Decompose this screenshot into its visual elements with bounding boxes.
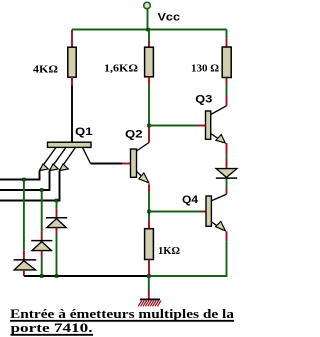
wire: Q4 emitter stub — [226, 231, 228, 241]
wire: Q3 emitter to D4 — [226, 143, 228, 169]
svg-text:Q2: Q2 — [125, 129, 143, 141]
wire: R1 bottom to Q1 base — [71, 77, 73, 143]
diode D2 (input clamp) — [31, 241, 52, 251]
resistor R1 4KΩ — [68, 47, 76, 77]
wire: input line 1 — [0, 171, 40, 180]
svg-text:1,6KΩ: 1,6KΩ — [104, 64, 138, 75]
wire: R2 bottom to node B — [148, 77, 150, 126]
wire: Q3 base — [149, 125, 206, 127]
wire: R1 top stub — [71, 30, 73, 48]
transistor Q4 — [206, 194, 227, 230]
resistor R2 1,6KΩ — [145, 47, 154, 77]
transistor Q3 — [206, 106, 227, 142]
wire: bottom ground rail (left, black) — [24, 275, 149, 277]
Q4 emitter arrow — [216, 221, 226, 231]
resistor R3 1KΩ — [145, 229, 154, 260]
wire: D1 to ground rail — [23, 270, 25, 276]
wire: top supply rail — [72, 29, 227, 31]
node: rail dot b2 — [40, 274, 44, 278]
wire: Q2 emitter down to 1K — [148, 184, 150, 228]
wire: D4 to Q4 collector — [226, 179, 228, 195]
wire: input line 2 — [0, 171, 50, 191]
svg-text:Q3: Q3 — [195, 94, 212, 106]
svg-text:Vcc: Vcc — [158, 12, 181, 24]
wire: branch to Q4 base — [149, 211, 206, 213]
svg-text:4KΩ: 4KΩ — [33, 65, 58, 76]
node: Q4 base junction dot — [147, 210, 151, 214]
wire: D3 to ground rail — [56, 228, 58, 276]
caption underline 2 — [11, 334, 94, 336]
ground symbol — [138, 276, 161, 306]
diode D3 (input clamp) — [46, 218, 67, 228]
caption underline 1 — [10, 320, 234, 322]
diode D1 (input clamp) — [14, 260, 37, 270]
node: rail dot b3 — [55, 274, 59, 278]
resistor R4 130Ω — [222, 47, 231, 78]
transistor Q2 — [131, 143, 150, 182]
wire: input line 3 — [0, 171, 60, 201]
transistor Q1 (multi-emitter) — [40, 142, 92, 170]
wire: right column top — [226, 30, 228, 48]
wire: bottom ground rail (right, green) — [149, 241, 227, 276]
Q1 emitter arrow 2 — [50, 164, 59, 171]
Q3 emitter arrow — [216, 135, 225, 143]
node: rail dot center — [147, 274, 151, 278]
diode D4 (level shift) — [216, 169, 237, 179]
node: input 1 junction dot — [22, 178, 26, 182]
svg-text:Q1: Q1 — [75, 126, 93, 138]
node: Vcc junction dot — [146, 28, 150, 32]
wire: D2 to ground rail — [41, 251, 43, 276]
svg-text:Entrée à émetteurs multiples d: Entrée à émetteurs multiples de la — [10, 306, 235, 321]
Q1 emitter arrow 3 — [60, 164, 69, 171]
node: input 3 junction dot — [55, 199, 59, 203]
node: B junction dot — [147, 124, 151, 128]
Q2 emitter arrow — [139, 173, 149, 183]
wire: clamp branch 3 — [56, 201, 58, 218]
svg-text:130 Ω: 130 Ω — [191, 64, 219, 75]
wire: middle column top — [148, 30, 150, 48]
wire: R4 bottom to Q3 collector — [226, 78, 228, 106]
node: input 2 junction dot — [40, 188, 44, 192]
wire: clamp branch 1 — [23, 180, 25, 260]
svg-text:Q4: Q4 — [182, 194, 199, 206]
Vcc terminal — [144, 2, 151, 29]
svg-text:porte 7410.: porte 7410. — [11, 320, 93, 335]
wire: Q1 collector to Q2 base — [91, 163, 131, 165]
wire: R3 bottom stub — [148, 260, 150, 277]
svg-text:1KΩ: 1KΩ — [158, 246, 180, 257]
Q1 emitter arrow 1 — [40, 164, 49, 171]
wire: clamp branch 2 — [41, 190, 43, 240]
wire: node B to Q2 collector — [148, 127, 150, 143]
